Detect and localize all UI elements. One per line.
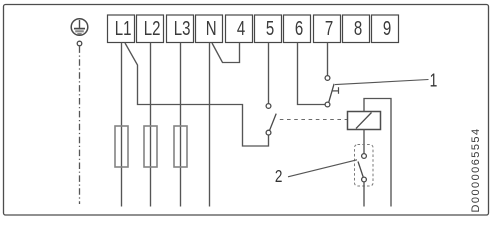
svg-text:L1: L1 [115, 17, 132, 40]
fuse F3 [174, 126, 187, 167]
wire below contact 2 [363, 182, 365, 207]
contact 2 upper node [362, 154, 367, 159]
fuse F2 [144, 126, 157, 167]
svg-text:L2: L2 [144, 17, 161, 40]
terminal 4 [226, 15, 253, 43]
mechanical linkage (dashed) to relay [280, 119, 348, 121]
switch S5 contact (upper node) [266, 104, 271, 109]
terminal N [196, 15, 223, 43]
wire relay top to right down [364, 99, 391, 207]
contact 2 dashed enclosure [355, 145, 374, 187]
switch S7 manual actuator mark [332, 90, 339, 92]
terminal 7 [314, 15, 341, 43]
terminal L2 [137, 15, 164, 43]
terminal 8 [343, 15, 370, 43]
label 2 leader line [288, 160, 357, 177]
switch S7 blade [329, 84, 334, 102]
earth wire (dash-dot) [79, 46, 81, 204]
terminal 9 [372, 15, 399, 43]
relay coil K1 [348, 112, 381, 130]
svg-text:8: 8 [354, 17, 362, 40]
switch S7 (contact 1) upper node [325, 76, 330, 81]
label 1 leader line [335, 80, 429, 85]
earth symbol PE [71, 19, 88, 36]
switch S5 blade [270, 114, 277, 131]
svg-text:7: 7 [325, 17, 333, 40]
switch S5 contact (lower node) [266, 130, 271, 135]
wire terminal 5 down to switch [268, 43, 270, 104]
terminal L1 [108, 15, 135, 43]
wire N down [209, 43, 211, 207]
node on earth lead [77, 41, 82, 46]
svg-text:6: 6 [295, 17, 303, 40]
svg-text:L3: L3 [174, 17, 191, 40]
wire L2 down [150, 43, 152, 207]
wire N to terminal 4 loop [212, 43, 240, 63]
svg-text:1: 1 [430, 70, 438, 90]
wire L3 down [180, 43, 182, 207]
contact 2 lower node [362, 177, 367, 182]
svg-text:9: 9 [383, 17, 391, 40]
wire terminal 7 down [327, 43, 329, 76]
wire relay bottom to contact 2 [363, 130, 365, 154]
terminal 5 [255, 15, 282, 43]
fuse F1 [115, 126, 128, 167]
wire L1 down [121, 43, 123, 207]
terminal 6 [284, 15, 311, 43]
terminal L3 [167, 15, 194, 43]
wire terminal 6 to switch S7 [298, 43, 326, 105]
switch S7 lower node [325, 102, 330, 107]
svg-text:N: N [206, 17, 217, 40]
contact 2 blade [358, 162, 363, 178]
wire L1 branch to switch S5 [125, 43, 269, 146]
svg-text:2: 2 [275, 167, 283, 186]
svg-text:D0000065554: D0000065554 [470, 127, 482, 212]
svg-text:5: 5 [266, 17, 274, 40]
svg-text:4: 4 [237, 17, 245, 40]
